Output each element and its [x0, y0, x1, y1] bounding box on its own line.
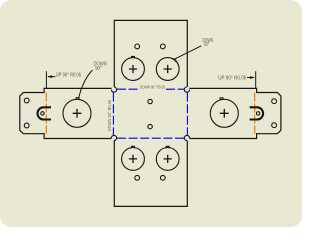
- svg-text:DOWN 90° R0.06: DOWN 90° R0.06: [140, 85, 166, 90]
- svg-text:UP 90° R0.06: UP 90° R0.06: [218, 75, 246, 81]
- svg-text:UP 90° R0.06: UP 90° R0.06: [56, 73, 81, 79]
- svg-text:90°: 90°: [95, 66, 101, 72]
- svg-text:DOWN 90° R0.06: DOWN 90° R0.06: [107, 99, 112, 131]
- svg-text:90°: 90°: [204, 42, 209, 48]
